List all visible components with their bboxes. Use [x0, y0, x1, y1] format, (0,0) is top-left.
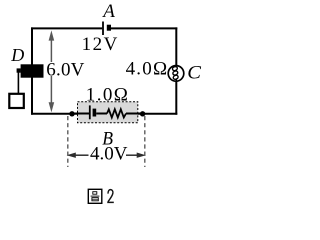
extension dashed line right [144, 116, 146, 167]
battery A short thick plate [107, 25, 111, 31]
bulb C circle [168, 66, 184, 82]
voltmeter arrow 6.0V bottom head [49, 102, 55, 112]
wire into box left [70, 113, 89, 115]
svg-text:1.0Ω: 1.0Ω [86, 85, 129, 106]
svg-text:12V: 12V [82, 34, 119, 55]
caption glyph tu (figure) [88, 189, 102, 203]
battery A long plate [102, 22, 104, 36]
wire bottom [31, 113, 177, 115]
battery B long plate [89, 105, 91, 119]
caption number 2 [108, 190, 114, 203]
device D terminal tab [17, 68, 21, 72]
plug open square [9, 94, 23, 108]
dimension arrow left shaft [75, 154, 89, 156]
wire left side [31, 27, 33, 114]
junction dot right [140, 111, 145, 116]
svg-text:4.0V: 4.0V [90, 144, 128, 165]
svg-text:C: C [187, 62, 202, 83]
wire battery to resistor [96, 113, 107, 115]
device D black box [21, 64, 44, 77]
wire top-right segment [111, 27, 177, 29]
bulb C filament coil [172, 66, 179, 82]
svg-text:4.0Ω: 4.0Ω [126, 59, 169, 80]
dimension arrow left head [67, 153, 76, 158]
junction dot left [69, 111, 74, 116]
wire top-left segment [31, 27, 102, 29]
voltmeter arrow 6.0V upper shaft [50, 38, 52, 62]
svg-text:6.0V: 6.0V [46, 60, 84, 81]
wire right side lower [175, 81, 177, 115]
dimension arrow right head [137, 153, 146, 158]
resistor 1.0 ohm zigzag [107, 109, 126, 117]
voltmeter arrow 6.0V lower shaft [50, 76, 52, 104]
svg-text:A: A [101, 1, 115, 22]
wire out of box right [126, 113, 145, 115]
wire from D to plug [17, 73, 19, 95]
battery B short thick plate [93, 109, 97, 117]
extension dashed line left [67, 116, 69, 167]
svg-text:D: D [10, 45, 24, 65]
voltmeter arrow 6.0V top head [49, 30, 55, 40]
battery B shaded box [78, 102, 138, 123]
dimension arrow right shaft [126, 154, 138, 156]
wire right side upper [175, 27, 177, 66]
